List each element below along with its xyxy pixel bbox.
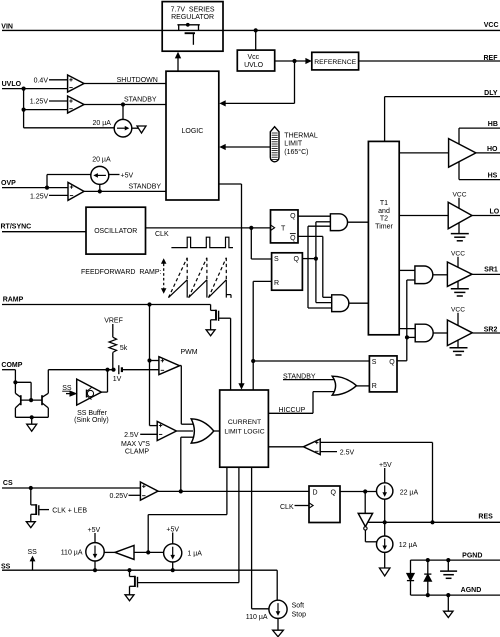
svg-text:THERMAL: THERMAL [284,132,318,139]
svg-text:(Sink Only): (Sink Only) [74,417,109,424]
svg-text:SS: SS [28,549,38,556]
svg-text:R: R [274,280,279,287]
svg-text:and: and [378,208,390,215]
svg-text:CS: CS [3,480,13,487]
svg-text:+5V: +5V [166,526,179,533]
svg-text:+5V: +5V [379,462,392,469]
svg-text:T: T [281,226,286,233]
svg-text:S: S [372,359,377,366]
svg-text:110 µA: 110 µA [61,550,83,557]
svg-text:T1: T1 [380,200,388,207]
svg-text:Stop: Stop [292,612,307,619]
svg-text:OVP: OVP [1,180,16,187]
svg-text:0.4V: 0.4V [34,77,49,84]
svg-text:1V: 1V [113,376,122,383]
svg-text:OSCILLATOR: OSCILLATOR [94,228,137,235]
svg-text:7.7V SERIES: 7.7V SERIES [171,7,215,14]
svg-text:HS: HS [488,173,498,180]
svg-text:D: D [313,489,318,496]
svg-text:REGULATOR: REGULATOR [171,14,214,21]
svg-text:LIMIT LOGIC: LIMIT LOGIC [224,428,264,435]
svg-text:STANDBY: STANDBY [129,184,162,191]
svg-text:VIN: VIN [1,24,13,31]
svg-text:VCC: VCC [484,22,499,29]
svg-text:RT/SYNC: RT/SYNC [1,223,32,230]
svg-text:Q: Q [290,213,296,220]
svg-text:PWM: PWM [181,349,198,356]
svg-text:VCC: VCC [451,307,465,314]
svg-text:20 µA: 20 µA [93,120,112,127]
svg-text:RAMP: RAMP [3,297,24,304]
svg-text:VCC: VCC [453,191,467,198]
svg-text:CLK + LEB: CLK + LEB [52,508,87,515]
svg-text:VCC: VCC [451,251,465,258]
svg-text:UVLO: UVLO [244,62,264,69]
svg-text:22 µA: 22 µA [400,489,419,496]
svg-text:LIMIT: LIMIT [284,141,303,148]
svg-text:R: R [372,383,377,390]
svg-text:2.5V: 2.5V [124,432,139,439]
svg-text:1.25V: 1.25V [30,193,49,200]
svg-text:SHUTDOWN: SHUTDOWN [117,77,158,84]
svg-text:HO: HO [487,146,498,153]
svg-text:CURRENT: CURRENT [228,419,261,426]
svg-text:LOGIC: LOGIC [182,128,204,135]
svg-text:MAX V"S: MAX V"S [121,441,150,448]
svg-text:STANDBY: STANDBY [124,96,157,103]
svg-text:Timer: Timer [375,223,393,230]
svg-text:Soft: Soft [292,602,305,609]
svg-text:AGND: AGND [461,587,482,594]
svg-text:UVLO: UVLO [2,81,22,88]
svg-text:Vcc: Vcc [247,54,259,61]
svg-text:5k: 5k [120,345,128,352]
svg-text:Q: Q [294,256,300,263]
svg-text:REFERENCE: REFERENCE [314,59,356,66]
svg-text:COMP: COMP [1,362,22,369]
svg-text:Q: Q [290,235,296,242]
svg-text:12 µA: 12 µA [399,542,418,549]
svg-text:20 µA: 20 µA [92,156,111,163]
svg-text:Q: Q [331,489,337,496]
svg-text:CLK: CLK [155,231,169,238]
svg-text:LO: LO [489,208,499,215]
svg-text:VREF: VREF [104,317,123,324]
svg-text:T2: T2 [380,216,388,223]
svg-text:PGND: PGND [462,553,482,560]
svg-text:SS Buffer: SS Buffer [77,410,108,417]
svg-text:(165°C): (165°C) [284,148,308,156]
svg-text:Q: Q [389,359,395,366]
svg-text:S: S [274,256,279,263]
svg-text:2.5V: 2.5V [340,449,355,456]
svg-text:FEEDFORWARD RAMP:: FEEDFORWARD RAMP: [81,269,162,276]
svg-text:1.25V: 1.25V [30,99,49,106]
svg-text:CLK: CLK [280,504,294,511]
svg-text:+5V: +5V [121,172,134,179]
svg-text:110 µA: 110 µA [246,614,268,621]
svg-text:0.25V: 0.25V [110,493,129,500]
svg-text:1 µA: 1 µA [187,550,202,557]
svg-text:SR1: SR1 [484,267,498,274]
svg-text:+5V: +5V [88,527,101,534]
svg-text:HICCUP: HICCUP [279,407,306,414]
svg-text:HB: HB [488,121,498,128]
svg-text:CLAMP: CLAMP [125,449,149,456]
svg-text:RES: RES [478,513,493,520]
